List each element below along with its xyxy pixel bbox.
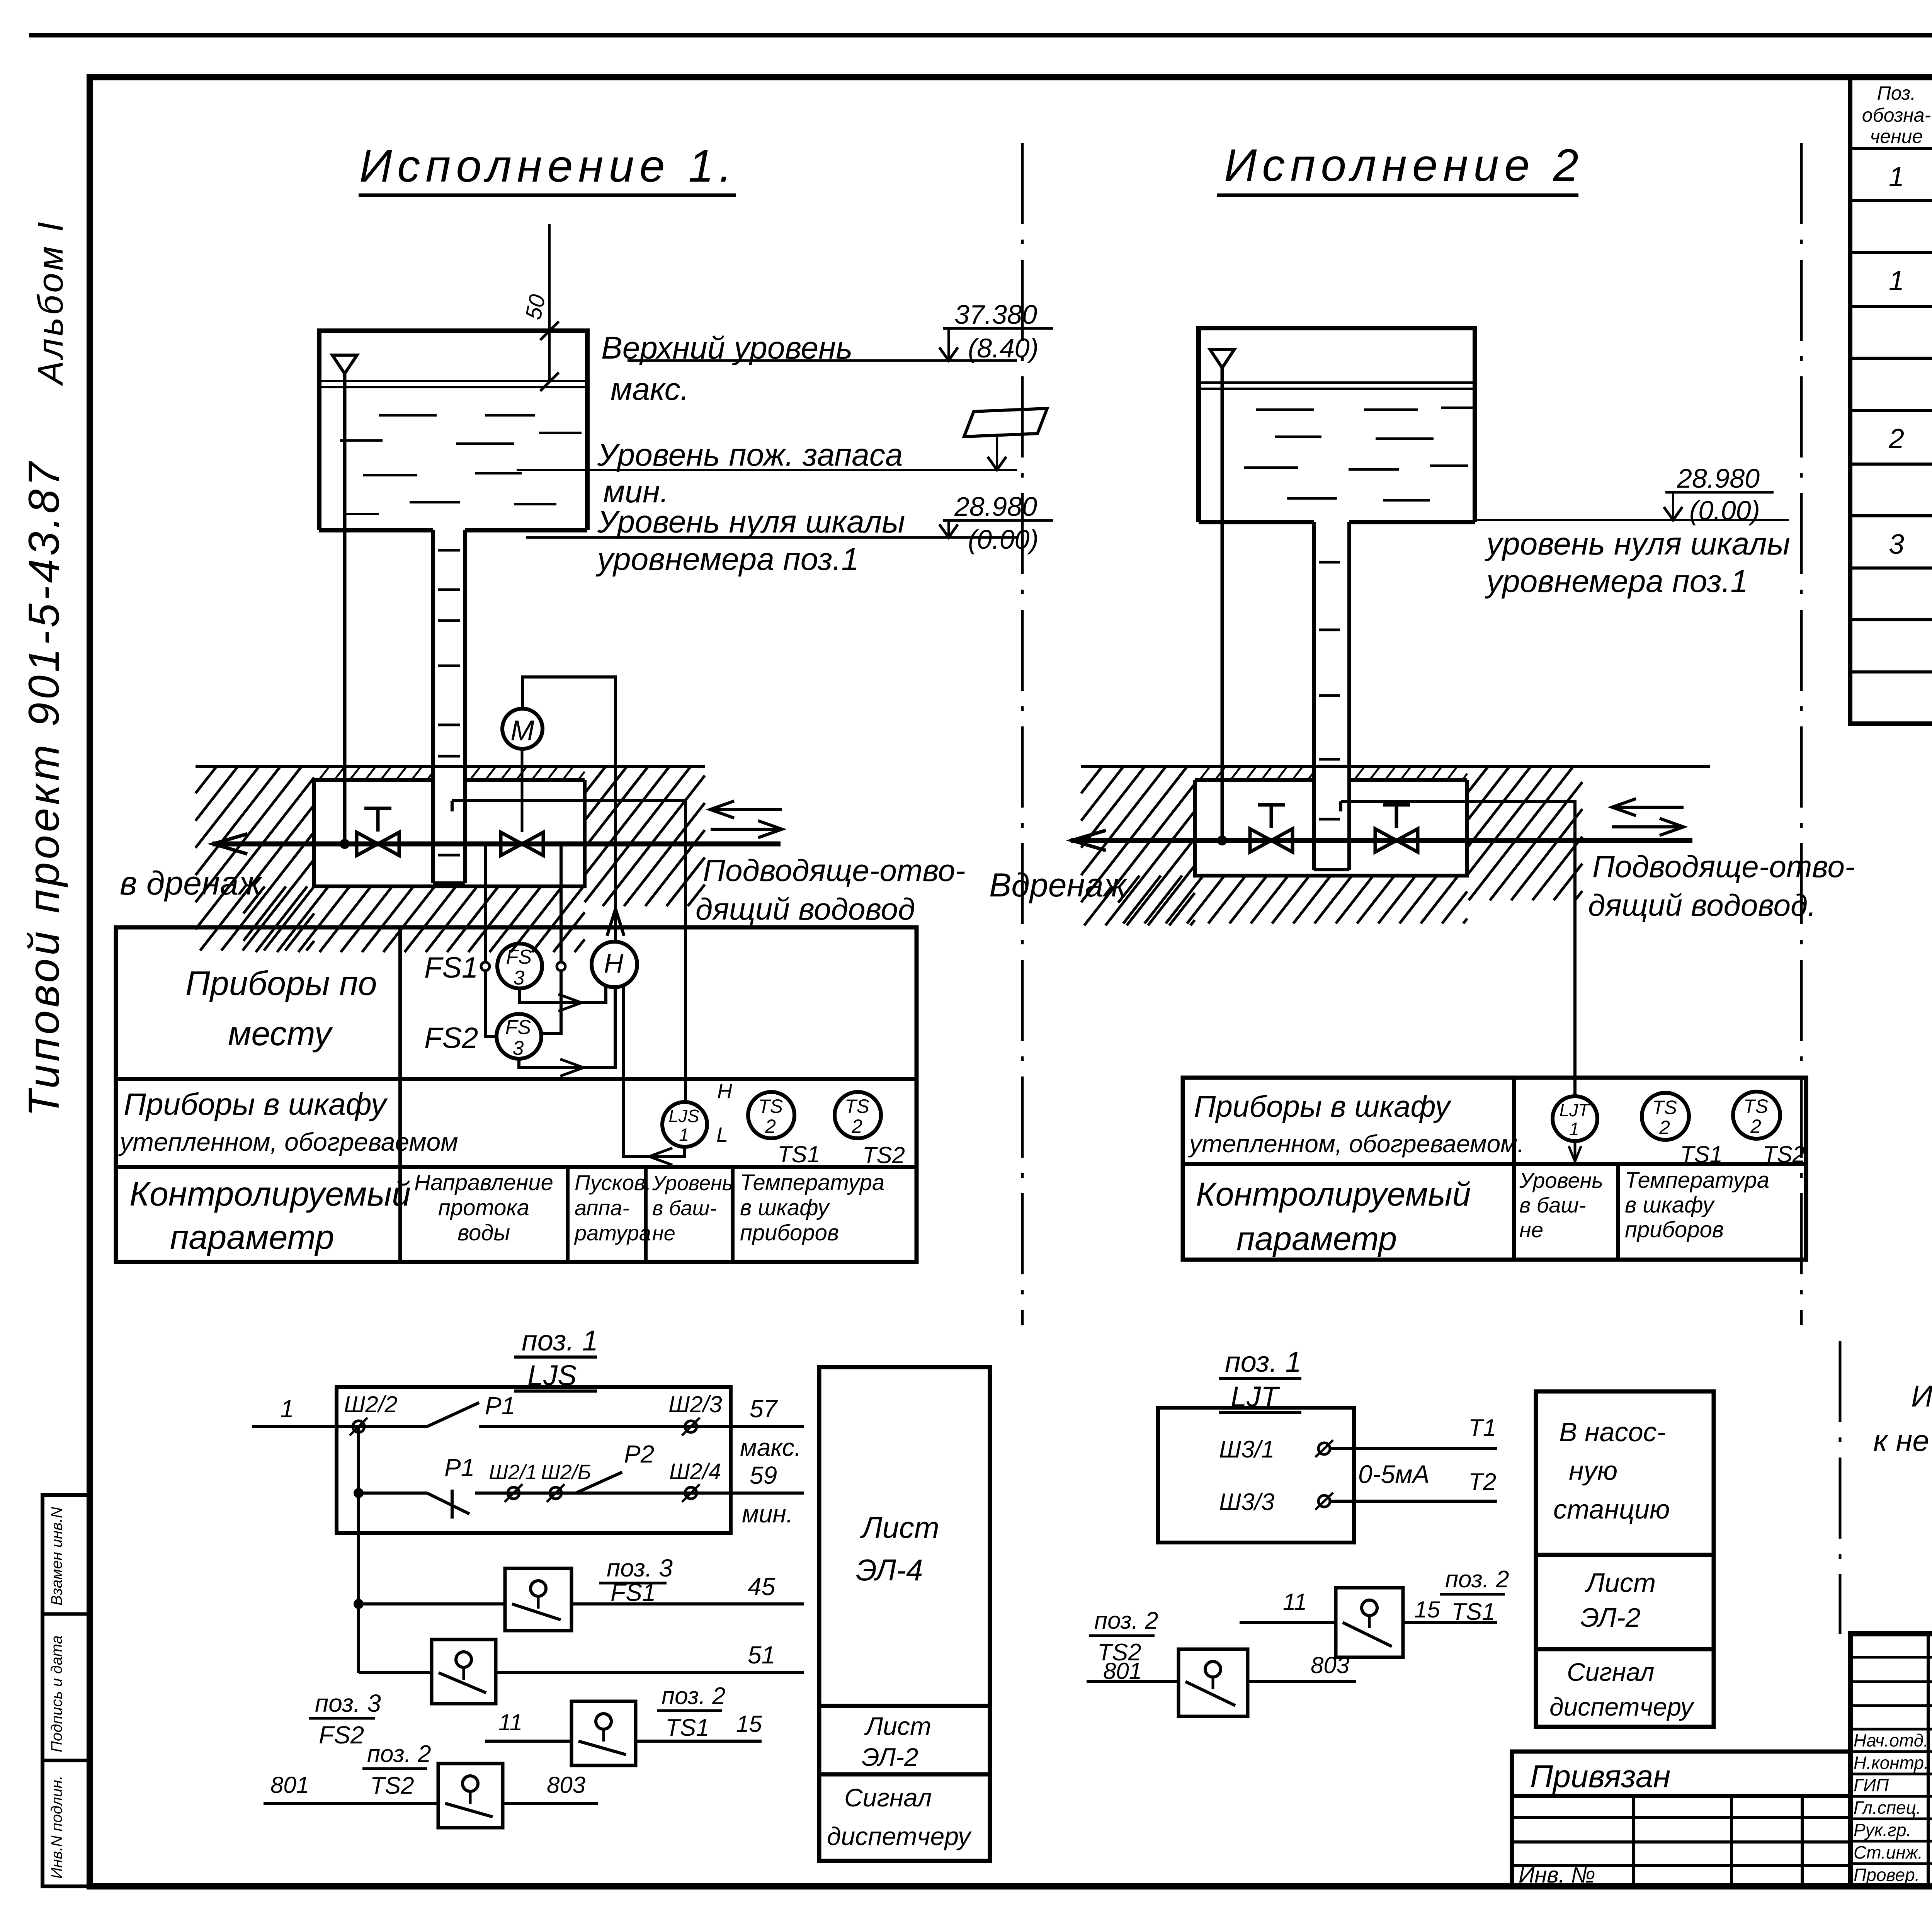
contact P1 line 59 — [427, 1493, 469, 1514]
start apparatus H instrument — [592, 942, 637, 987]
svg-text:обозна-: обозна- — [1862, 104, 1931, 126]
terminal Sh2/3 — [685, 1421, 697, 1432]
svg-text:Гл.спец.: Гл.спец. — [1854, 1798, 1921, 1818]
tank 1 water surface lines — [319, 380, 587, 382]
ground hatch right of pit 1 — [585, 766, 606, 793]
svg-text:в шкафу: в шкафу — [740, 1195, 830, 1220]
svg-text:не: не — [1519, 1218, 1543, 1242]
svg-text:2: 2 — [1750, 1116, 1761, 1137]
svg-text:Н: Н — [604, 948, 624, 978]
temperature sensor TS1 instrument 2 — [1642, 1093, 1689, 1140]
water tank 1 — [319, 331, 587, 530]
tank 1 water dashes — [379, 414, 437, 417]
svg-text:в дренаж: в дренаж — [120, 865, 263, 902]
svg-text:макс.: макс. — [611, 372, 689, 407]
wire line 801-803 TS2 section2 — [1087, 1680, 1179, 1683]
svg-text:Верхний уровень: Верхний уровень — [601, 330, 852, 366]
svg-text:803: 803 — [547, 1772, 585, 1798]
junction dot line 45 — [354, 1599, 364, 1609]
svg-text:Альбом I: Альбом I — [31, 219, 70, 386]
svg-text:Приборы в шкафу: Приборы в шкафу — [124, 1087, 388, 1121]
svg-text:Контролируемый: Контролируемый — [129, 1175, 411, 1213]
title block main — [1850, 1634, 1932, 1886]
drain pipe section 1 — [213, 842, 781, 847]
svg-text:Подводяще-отво-: Подводяще-отво- — [1592, 849, 1855, 884]
svg-text:TS2: TS2 — [1097, 1639, 1141, 1666]
svg-text:воды: воды — [457, 1220, 510, 1245]
sheet top trim line — [29, 33, 1932, 37]
svg-text:параметр: параметр — [170, 1218, 334, 1256]
level transmitter LJT instrument — [1553, 1096, 1597, 1141]
svg-text:Вдренаж: Вдренаж — [989, 867, 1128, 904]
destination box List EL-2 section2 — [1536, 1555, 1714, 1649]
section divider line between Ispolnenie 1 and 2 — [1021, 143, 1024, 1325]
svg-text:1: 1 — [1889, 162, 1904, 192]
ground hatch band over pit 1 — [318, 766, 330, 781]
temperature sensor TS2 instrument 2 — [1733, 1092, 1780, 1139]
impulse line from stem to LJT — [1341, 801, 1575, 1096]
svg-text:поз. 3: поз. 3 — [607, 1554, 673, 1582]
instrument table section 2 — [1183, 1078, 1806, 1260]
svg-text:1: 1 — [1569, 1119, 1579, 1139]
svg-text:поз. 3: поз. 3 — [315, 1689, 381, 1717]
temperature sensor TS1 instrument 1 — [748, 1092, 794, 1138]
svg-text:2: 2 — [1659, 1117, 1670, 1138]
svg-text:2: 2 — [1888, 423, 1904, 454]
svg-text:Провер.: Провер. — [1854, 1865, 1920, 1885]
svg-text:801: 801 — [270, 1772, 309, 1798]
svg-text:чение: чение — [1870, 126, 1923, 147]
wire line 51 — [359, 1671, 432, 1674]
svg-text:TS: TS — [758, 1095, 783, 1117]
flow relay FS2 instrument — [497, 1014, 541, 1059]
svg-text:11: 11 — [498, 1709, 522, 1735]
tank 2 water dashes — [1256, 408, 1314, 411]
svg-text:FS2: FS2 — [319, 1721, 364, 1749]
instrument table section 1 — [116, 927, 917, 1262]
left margin stamp boxes — [43, 1495, 90, 1886]
svg-text:поз. 2: поз. 2 — [1094, 1607, 1158, 1634]
svg-text:Поз.: Поз. — [1877, 82, 1916, 104]
svg-text:TS1: TS1 — [1451, 1599, 1495, 1625]
svg-text:TS: TS — [1743, 1095, 1768, 1117]
float sensing tube tank 1 — [343, 374, 347, 844]
pump start signal arrowhead — [607, 909, 624, 936]
flow contact FS2 box — [432, 1639, 496, 1704]
drain arrow section 1 — [213, 834, 247, 854]
svg-text:Ш2/4: Ш2/4 — [669, 1459, 721, 1484]
svg-text:LJT: LJT — [1560, 1100, 1590, 1120]
junction dot float tube to pipe 1 — [340, 839, 350, 849]
motor control wire — [522, 677, 616, 942]
svg-text:Уровень пож. запаса: Уровень пож. запаса — [597, 437, 903, 473]
svg-text:Уровень: Уровень — [652, 1172, 733, 1195]
temp contact TS2 box 1 — [438, 1764, 503, 1828]
svg-text:LJS: LJS — [668, 1106, 699, 1126]
svg-text:параметр: параметр — [1236, 1220, 1397, 1257]
FS tap line 1 — [484, 844, 487, 963]
valve V1 section 2 — [1250, 829, 1271, 852]
drain pipe section 2 — [1071, 838, 1692, 843]
wire line 45 — [359, 1602, 505, 1605]
svg-text:FS1: FS1 — [424, 951, 478, 984]
svg-text:протока: протока — [438, 1195, 529, 1220]
svg-text:в баш-: в баш- — [652, 1197, 716, 1220]
dimension 50 freeboard — [548, 224, 551, 382]
destination box List EL-4 — [819, 1367, 990, 1706]
wire FS2 to H — [519, 987, 615, 1068]
svg-text:макс.: макс. — [740, 1434, 801, 1461]
ground hatch right of pit 2 — [1467, 766, 1488, 793]
svg-text:1: 1 — [1889, 265, 1904, 296]
svg-text:к не нужному исполнению: к не нужному исполнению башни вычеркнуть… — [1873, 1423, 1932, 1458]
wire FS1 to H — [520, 986, 606, 1003]
water tank 2 — [1199, 328, 1475, 522]
wire LJS to H — [624, 987, 685, 1156]
float sensing tube tank 2 — [1221, 368, 1224, 840]
svg-text:Сигнал: Сигнал — [1567, 1658, 1654, 1686]
svg-text:Направление: Направление — [414, 1170, 553, 1195]
fire reserve flag parallelogram — [964, 408, 1047, 437]
svg-text:Ш2/1: Ш2/1 — [489, 1461, 537, 1484]
svg-text:Пусков.: Пусков. — [575, 1170, 651, 1195]
svg-text:1: 1 — [679, 1124, 689, 1145]
svg-text:утепленном, обогреваемом.: утепленном, обогреваемом. — [1188, 1130, 1524, 1158]
svg-text:3: 3 — [514, 967, 525, 989]
svg-text:поз. 2: поз. 2 — [1445, 1566, 1509, 1593]
svg-text:Сигнал: Сигнал — [844, 1783, 932, 1812]
svg-text:Температура: Температура — [1625, 1168, 1769, 1193]
svg-text:TS2: TS2 — [862, 1142, 905, 1168]
svg-text:15: 15 — [736, 1711, 762, 1737]
destination box List EL-2 section1 — [819, 1706, 990, 1774]
destination box signal dispetcheru section2 — [1536, 1649, 1714, 1727]
destination box v nasosnuyu stantsiyu — [1536, 1391, 1714, 1555]
contact P1 line 57 — [427, 1403, 479, 1427]
svg-text:приборов: приборов — [1625, 1217, 1724, 1242]
svg-text:ЭЛ-2: ЭЛ-2 — [862, 1743, 918, 1771]
svg-text:Ш2/3: Ш2/3 — [668, 1391, 722, 1417]
svg-text:TS1: TS1 — [777, 1141, 820, 1167]
svg-text:Р1: Р1 — [485, 1392, 515, 1420]
ground hatch under pit 1 — [243, 886, 265, 913]
svg-text:Взамен инв.N: Взамен инв.N — [48, 1507, 65, 1605]
svg-text:TS1: TS1 — [1680, 1141, 1723, 1167]
privyazan box — [1512, 1752, 1850, 1796]
flow contact FS1 box — [505, 1568, 571, 1631]
svg-text:Ш3/1: Ш3/1 — [1219, 1436, 1274, 1463]
terminal Sh2/2 — [353, 1421, 364, 1432]
ground hatch left of pit 2 — [1081, 766, 1102, 793]
svg-text:Температура: Температура — [740, 1170, 884, 1195]
svg-text:Уровень нуля шкалы: Уровень нуля шкалы — [597, 504, 905, 539]
svg-text:2: 2 — [851, 1116, 862, 1137]
svg-text:Типовой проект 901-5-43.87: Типовой проект 901-5-43.87 — [20, 459, 68, 1117]
svg-text:2: 2 — [765, 1116, 776, 1137]
svg-text:приборов: приборов — [740, 1220, 839, 1245]
svg-text:Подводяще-отво-: Подводяще-отво- — [703, 853, 966, 888]
wire line 801-803 TS2 — [264, 1802, 438, 1805]
svg-text:Т1: Т1 — [1468, 1415, 1496, 1441]
svg-text:ную: ную — [1569, 1456, 1617, 1486]
svg-text:Нач.отд.: Нач.отд. — [1854, 1730, 1929, 1750]
ground hatch band over pit 2 — [1200, 766, 1210, 780]
svg-text:3: 3 — [1889, 529, 1904, 560]
svg-text:Ст.инж.: Ст.инж. — [1854, 1842, 1923, 1862]
svg-text:дящий водовод: дящий водовод — [696, 892, 915, 926]
wire T1 — [1330, 1447, 1497, 1450]
svg-text:(0.00): (0.00) — [968, 524, 1039, 554]
svg-text:Р1: Р1 — [444, 1454, 474, 1481]
svg-text:в шкафу: в шкафу — [1625, 1192, 1715, 1218]
temp contact TS1 box 2 — [1336, 1588, 1403, 1657]
svg-text:803: 803 — [1311, 1652, 1349, 1678]
svg-text:FS1: FS1 — [611, 1578, 656, 1606]
svg-text:Приборы в шкафу: Приборы в шкафу — [1194, 1089, 1452, 1123]
svg-text:дящий водовод.: дящий водовод. — [1588, 888, 1816, 922]
level line zero of scale — [526, 536, 1017, 539]
level gauge LJS instrument — [662, 1102, 707, 1147]
float gauge symbol tank 1 — [332, 355, 357, 374]
svg-text:37.380: 37.380 — [954, 299, 1037, 330]
level line fire reserve — [517, 469, 1017, 471]
svg-text:Приборы по: Приборы по — [185, 964, 377, 1002]
privyazan grid — [1512, 1796, 1850, 1886]
wire T2 — [1330, 1500, 1497, 1503]
svg-text:поз. 1: поз. 1 — [522, 1325, 598, 1357]
wire line 11-15 TS1 section2 — [1240, 1621, 1336, 1624]
valve V1 section 1 — [357, 832, 378, 855]
svg-text:месту: месту — [228, 1014, 333, 1053]
svg-text:Инв.N подлин.: Инв.N подлин. — [48, 1776, 65, 1879]
svg-text:Р2: Р2 — [624, 1440, 654, 1468]
svg-text:в баш-: в баш- — [1519, 1193, 1586, 1217]
stem 2 level ticks — [1319, 561, 1340, 564]
svg-text:TS: TS — [845, 1095, 869, 1117]
svg-text:Привязан: Привязан — [1530, 1759, 1670, 1794]
svg-text:Лист: Лист — [860, 1510, 939, 1544]
tank 1 stem walls — [431, 530, 435, 883]
valve V2 section 2 — [1375, 829, 1396, 852]
svg-text:В насос-: В насос- — [1559, 1417, 1666, 1447]
svg-text:1: 1 — [280, 1395, 294, 1423]
svg-text:аппа-: аппа- — [575, 1196, 629, 1220]
svg-text:Исполнение 1.: Исполнение 1. — [359, 141, 737, 192]
ground line section 1 — [196, 765, 705, 768]
wire line 11-15 TS1 — [485, 1740, 571, 1743]
svg-text:15: 15 — [1414, 1597, 1440, 1622]
terminal Sh2/1 — [508, 1487, 519, 1499]
temp contact TS2 box 2 — [1179, 1649, 1248, 1716]
stem 1 level ticks — [438, 549, 460, 552]
svg-text:диспетчеру: диспетчеру — [1549, 1692, 1695, 1721]
drain arrow section 2 — [1072, 830, 1106, 850]
FS tap line 2 — [560, 844, 563, 963]
svg-text:мин.: мин. — [742, 1500, 793, 1528]
svg-text:ЭЛ-4: ЭЛ-4 — [856, 1553, 923, 1587]
svg-text:59: 59 — [750, 1461, 777, 1489]
svg-text:ратура: ратура — [574, 1221, 651, 1245]
svg-text:поз. 1: поз. 1 — [1225, 1346, 1301, 1378]
svg-text:Уровень: Уровень — [1519, 1168, 1603, 1192]
svg-text:станцию: станцию — [1553, 1494, 1670, 1524]
tank 2 stem walls — [1312, 522, 1316, 870]
svg-text:Н.контр.: Н.контр. — [1854, 1753, 1929, 1773]
temperature sensor TS2 instrument 1 — [835, 1092, 881, 1138]
terminal Sh2/B — [550, 1487, 561, 1499]
vent node left — [481, 962, 490, 971]
svg-text:3: 3 — [513, 1037, 524, 1060]
svg-text:FS: FS — [505, 1016, 531, 1039]
vent node right — [557, 962, 565, 971]
temp contact TS1 box 1 — [571, 1701, 636, 1765]
svg-text:TS: TS — [1652, 1097, 1677, 1118]
svg-text:28.980: 28.980 — [954, 492, 1037, 522]
svg-text:Контролируемый: Контролируемый — [1196, 1176, 1471, 1213]
svg-text:0-5мА: 0-5мА — [1358, 1460, 1430, 1488]
ground hatch under pit 2 — [1118, 876, 1139, 903]
destination box signal dispetcheru section1 — [819, 1774, 990, 1861]
svg-text:FS2: FS2 — [424, 1022, 478, 1054]
level line max 37.380 — [628, 359, 1017, 362]
svg-text:ГИП: ГИП — [1854, 1775, 1889, 1795]
wire line 57 max — [252, 1425, 427, 1428]
svg-text:Ш2/Б: Ш2/Б — [541, 1461, 591, 1484]
flow arrows section 1 — [710, 808, 782, 811]
svg-text:28.980: 28.980 — [1677, 463, 1760, 493]
svg-text:Исполнение 2: Исполнение 2 — [1224, 140, 1584, 191]
svg-text:не: не — [652, 1222, 675, 1245]
flow relay FS1 instrument — [497, 944, 542, 988]
svg-text:Лист: Лист — [864, 1712, 931, 1740]
pit chamber 1 — [314, 780, 585, 886]
flow arrows section 2 — [1612, 806, 1684, 809]
svg-text:Ш3/3: Ш3/3 — [1219, 1489, 1274, 1515]
motor actuator M — [502, 709, 543, 749]
svg-text:Инв. №: Инв. № — [1519, 1862, 1595, 1888]
ground line section 2 — [1081, 765, 1710, 768]
svg-text:TS2: TS2 — [1763, 1141, 1805, 1167]
motor valve V2 section 1 — [501, 832, 522, 855]
svg-text:Подпись и дата: Подпись и дата — [48, 1635, 65, 1752]
tank 2 water surface lines — [1199, 381, 1475, 384]
svg-text:45: 45 — [748, 1573, 776, 1600]
svg-text:уровнемера поз.1: уровнемера поз.1 — [595, 542, 859, 577]
svg-text:FS: FS — [506, 946, 532, 968]
impulse line from stem to LJS — [452, 801, 685, 1102]
specification table — [1850, 77, 1932, 724]
ground hatch left of pit 1 — [196, 766, 217, 793]
svg-text:Изображение и поз. специфика: Изображение и поз. спецификации относящи… — [1911, 1379, 1932, 1413]
junction dot float tube to pipe 2 — [1217, 835, 1227, 845]
svg-text:Т2: Т2 — [1468, 1469, 1496, 1495]
contact P2 line 59 — [576, 1472, 622, 1493]
svg-text:диспетчеру: диспетчеру — [827, 1822, 972, 1850]
svg-text:TS1: TS1 — [665, 1714, 709, 1741]
wire from Sh2/2 down — [357, 1427, 360, 1673]
svg-text:Рук.гр.: Рук.гр. — [1854, 1820, 1911, 1840]
svg-text:L: L — [716, 1123, 728, 1146]
svg-text:утепленном, обогреваемом: утепленном, обогреваемом — [118, 1128, 458, 1156]
level line zero section 2 — [1475, 519, 1789, 521]
svg-text:11: 11 — [1283, 1589, 1307, 1615]
svg-text:уровнемера поз.1: уровнемера поз.1 — [1485, 564, 1748, 599]
svg-text:51: 51 — [748, 1641, 775, 1669]
svg-text:Н: Н — [717, 1080, 733, 1103]
svg-text:57: 57 — [750, 1395, 778, 1423]
transmitter box LJT — [1158, 1408, 1354, 1543]
terminal Sh2/4 — [685, 1487, 697, 1499]
svg-text:поз. 2: поз. 2 — [662, 1683, 726, 1709]
wire line 59 min — [359, 1492, 427, 1495]
pit chamber 2 — [1195, 780, 1467, 876]
svg-text:М: М — [510, 714, 534, 747]
svg-text:поз. 2: поз. 2 — [367, 1741, 431, 1767]
svg-text:Ш2/2: Ш2/2 — [344, 1391, 398, 1417]
section divider line between Ispolnenie 2 and right column — [1800, 143, 1803, 1325]
svg-text:ЭЛ-2: ЭЛ-2 — [1580, 1602, 1641, 1633]
svg-text:(8.40): (8.40) — [968, 333, 1039, 363]
svg-text:TS2: TS2 — [370, 1772, 414, 1799]
wire node left to FS2 — [485, 971, 497, 1036]
svg-text:50: 50 — [520, 292, 550, 322]
relay box LJS contacts — [337, 1387, 731, 1533]
float gauge symbol tank 2 — [1210, 350, 1234, 368]
svg-text:Лист: Лист — [1585, 1568, 1656, 1598]
svg-text:уровень нуля шкалы: уровень нуля шкалы — [1485, 526, 1790, 561]
wire node right to FS2 — [541, 971, 561, 1034]
